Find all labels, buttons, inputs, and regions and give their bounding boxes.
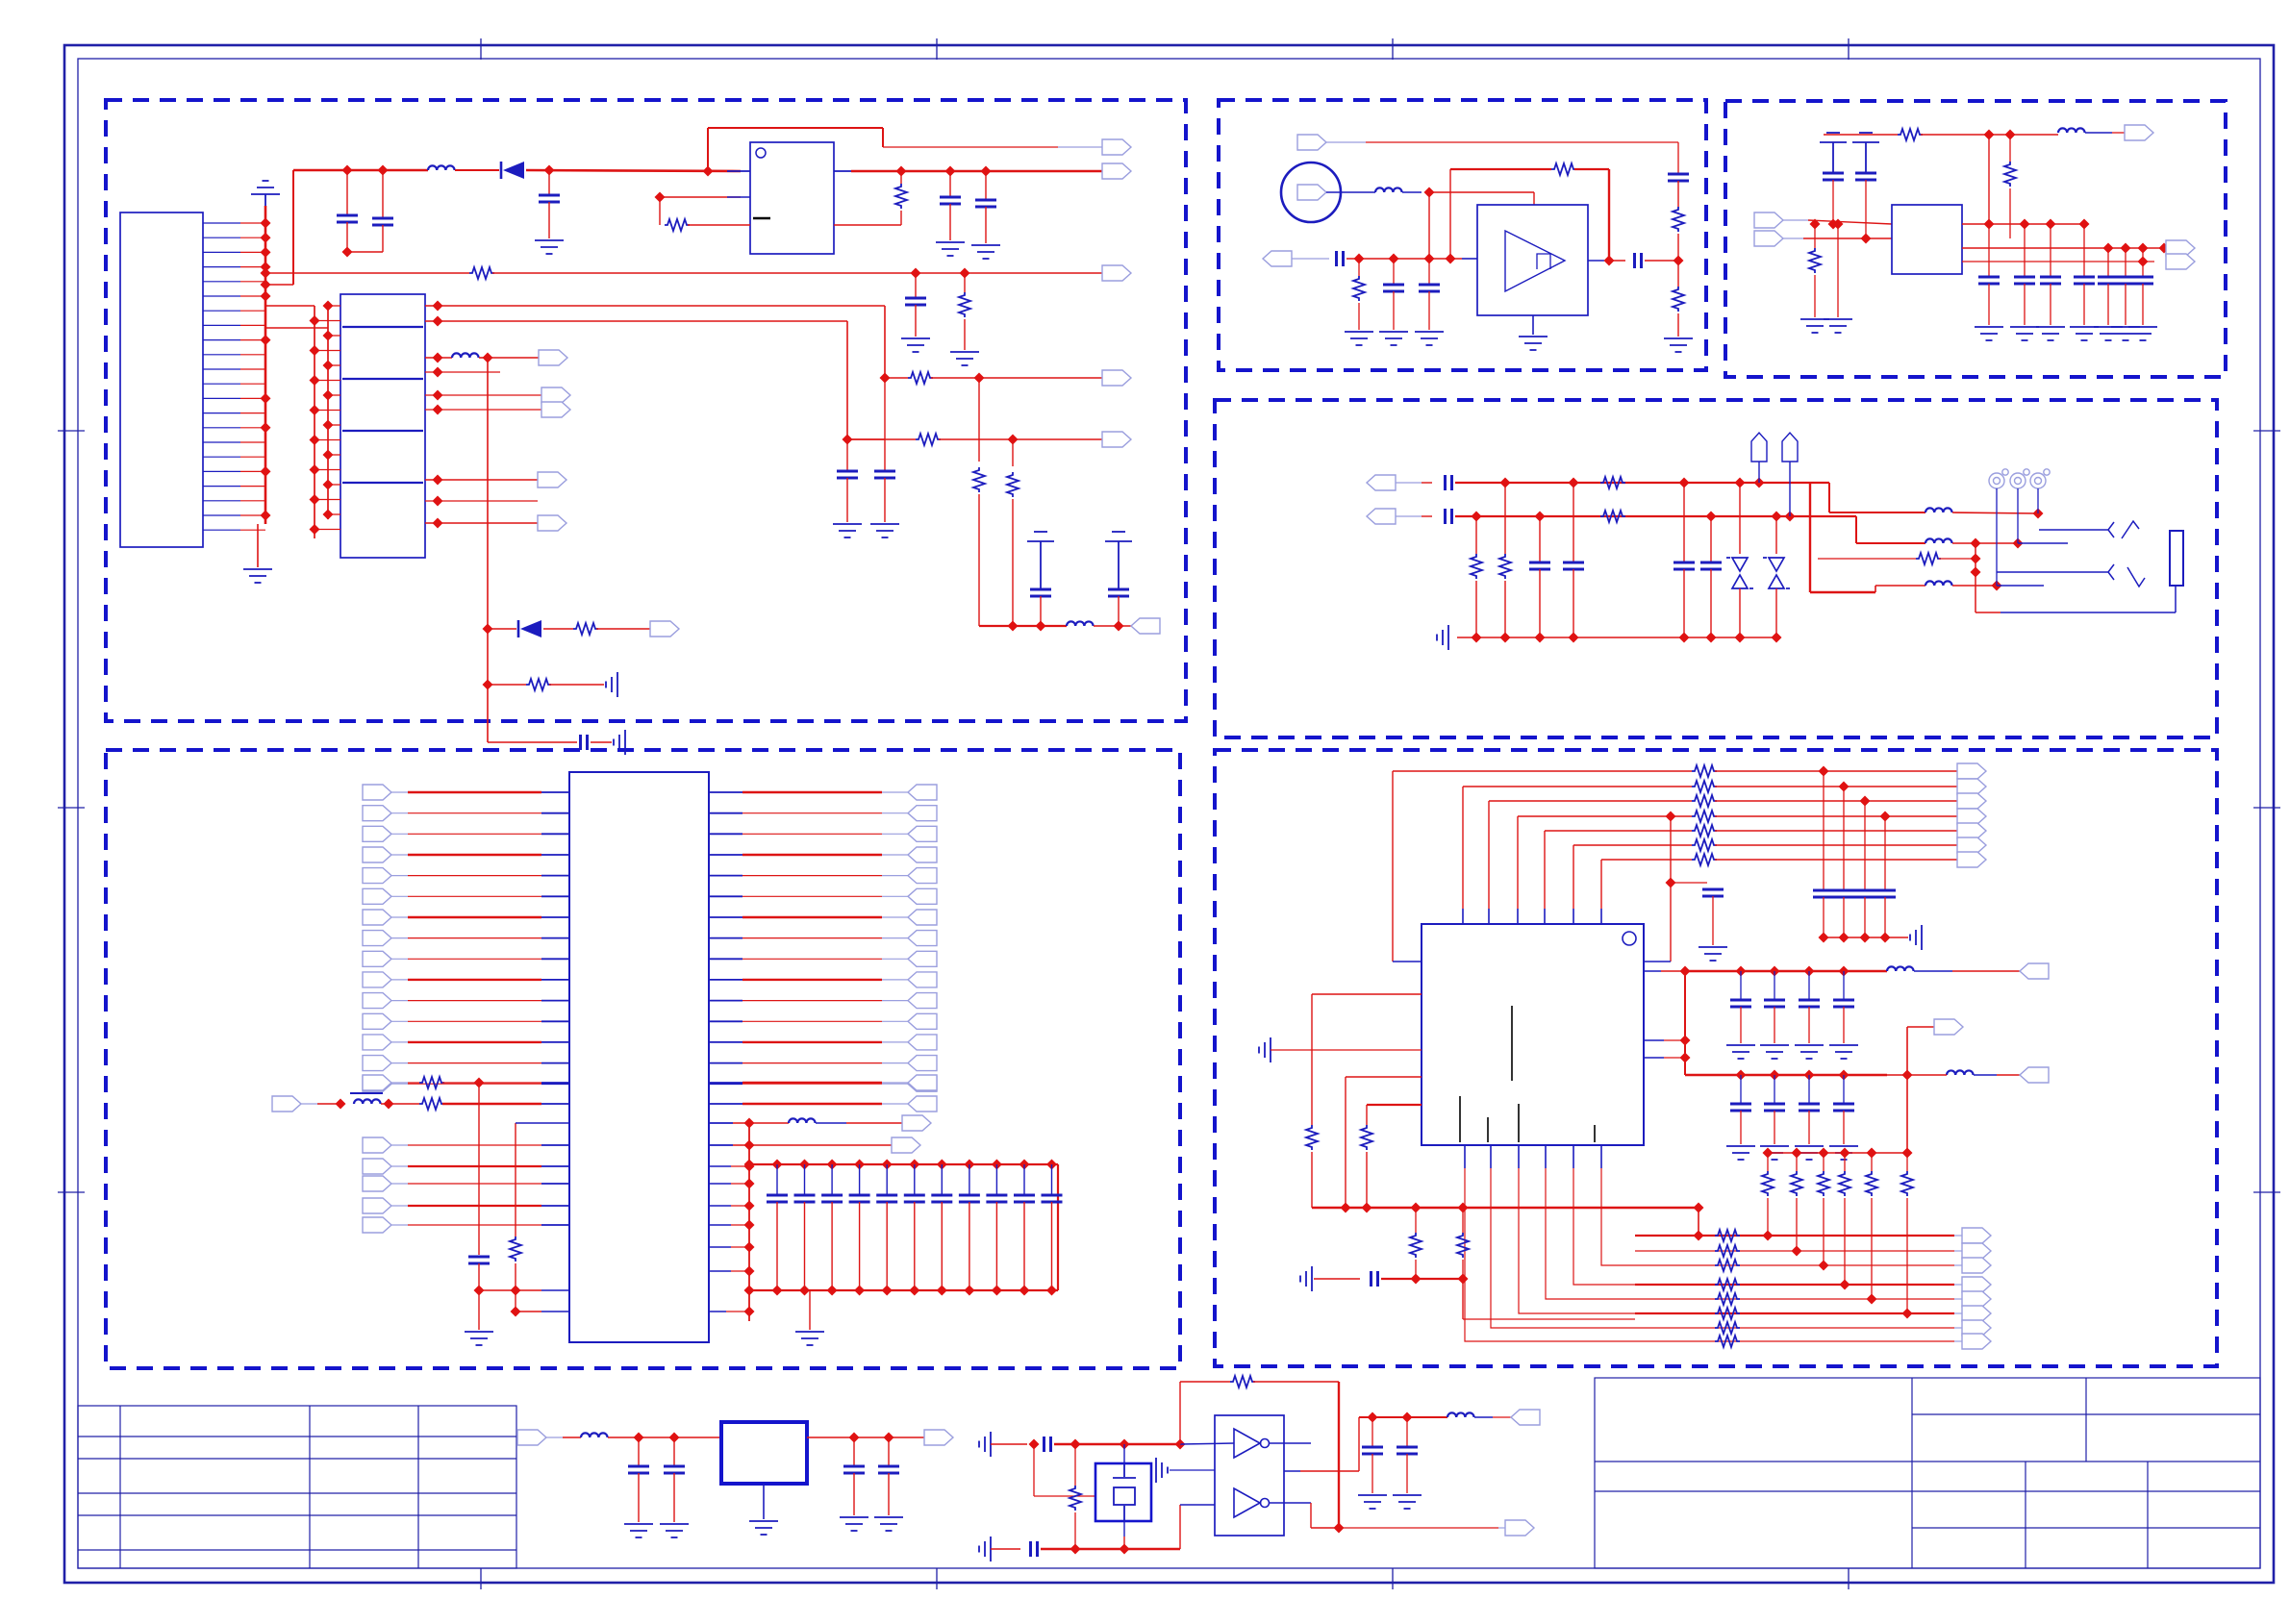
section box audio jack [1215, 400, 2217, 737]
junction [1819, 1148, 1829, 1159]
jack contact ring [2010, 469, 2029, 488]
wire connector pin [203, 251, 240, 253]
junction [744, 1160, 755, 1170]
junction [1984, 219, 1995, 230]
wire [1253, 1381, 1339, 1383]
wire connector pin [203, 514, 240, 516]
wire [1635, 1312, 1954, 1314]
wire [1952, 585, 1993, 587]
wire [1488, 909, 1490, 924]
net connector [908, 888, 937, 904]
wire [978, 378, 980, 462]
wire header left pin [328, 513, 340, 515]
polarized capacitor [1852, 133, 1879, 173]
wire [964, 319, 966, 350]
net connector [1957, 763, 1986, 779]
wire [1635, 1264, 1954, 1266]
wire header left pin [315, 320, 340, 322]
net connector [908, 1035, 937, 1050]
wire [1767, 1153, 1769, 1171]
net connector [908, 1076, 937, 1091]
wire [1359, 1416, 1447, 1418]
wire [846, 1122, 902, 1124]
wire [1808, 1007, 1810, 1043]
wire [2175, 586, 2177, 612]
junction [1754, 478, 1765, 488]
net connector EN [1102, 139, 1131, 155]
resistor [1692, 795, 1717, 807]
wire header left pin [315, 350, 340, 352]
wire [1428, 291, 1430, 330]
wire row [1962, 261, 2154, 262]
ground GB5 [1519, 337, 1548, 350]
wire [2142, 284, 2144, 325]
hysteresis mark [1537, 254, 1550, 269]
wire [673, 1437, 675, 1466]
wire [709, 1183, 731, 1185]
junction [1839, 1070, 1850, 1081]
net connector [908, 806, 937, 821]
section box top-right filter [1725, 101, 2226, 377]
wire [709, 916, 742, 918]
wire [541, 1083, 569, 1085]
junction [1500, 478, 1511, 488]
junction [1424, 254, 1435, 264]
wire [1823, 1198, 1824, 1265]
wire [541, 1311, 569, 1312]
wire [425, 371, 500, 373]
wire [1715, 800, 1957, 802]
capacitor [1833, 1104, 1854, 1111]
wire [1644, 1039, 1664, 1041]
capacitor [2074, 277, 2095, 284]
junction [323, 331, 334, 341]
wire [425, 500, 538, 502]
wire [709, 1083, 742, 1085]
wire [742, 895, 882, 897]
wire stub [1396, 482, 1422, 484]
wire riser [1488, 801, 1490, 909]
wire [1539, 554, 1541, 562]
wire [2083, 284, 2085, 325]
capacitor [1978, 277, 2000, 284]
jack sleeve [2170, 531, 2183, 586]
wire [1300, 1470, 1339, 1472]
resistor R10 [526, 679, 551, 690]
wire [995, 1202, 997, 1290]
wire [1939, 558, 1975, 560]
junction [882, 1160, 893, 1170]
inductor LE1 with shield bar [350, 1092, 383, 1094]
wire [408, 1144, 541, 1146]
inductor [1447, 1412, 1474, 1417]
net connector A426 [541, 402, 570, 417]
wire [488, 628, 516, 630]
wire [831, 1202, 833, 1290]
wire [408, 875, 541, 877]
wire out stub [834, 170, 851, 172]
junction [843, 435, 853, 445]
wire [1462, 1279, 1464, 1319]
wire [991, 1548, 1020, 1550]
wire header left pin [328, 335, 340, 337]
wire [1715, 844, 1957, 846]
junction [1819, 933, 1829, 943]
wire [479, 357, 488, 359]
net connector [1962, 1228, 1991, 1243]
wire [978, 494, 980, 626]
wire [1545, 830, 1692, 832]
net connector mic pin [1297, 185, 1326, 200]
wire [515, 1263, 516, 1312]
wire [1123, 1444, 1125, 1463]
resistor [1692, 811, 1717, 822]
wire [941, 1164, 943, 1195]
wire [1463, 786, 1692, 787]
wire [317, 1103, 342, 1105]
capacitor [1813, 890, 1834, 897]
wire [749, 1122, 789, 1124]
wire [1635, 1284, 1954, 1286]
wire [455, 169, 499, 171]
capacitor CB3 [1383, 285, 1404, 291]
wire [1829, 512, 1925, 513]
wire pin to bus [240, 266, 265, 268]
wire drop [478, 1083, 480, 1255]
wire connector pin [203, 456, 240, 458]
border tick left [58, 430, 85, 432]
resistor R9 [573, 623, 598, 635]
inverter U7 [1215, 1415, 1284, 1536]
capacitor [1730, 1104, 1751, 1111]
wire [541, 1289, 569, 1291]
wire [1715, 815, 1957, 817]
ground GD1 sideways [1437, 625, 1448, 650]
ground G2 below connector [243, 569, 272, 583]
inductor [1887, 966, 1914, 971]
main IC U4 [569, 772, 709, 1342]
wire stub [391, 937, 408, 939]
wire [1284, 1470, 1300, 1472]
wire [1393, 259, 1395, 285]
wire [1464, 1145, 1466, 1168]
crystal symbol [1113, 1463, 1136, 1521]
wire [1677, 142, 1679, 174]
ground G10 sideways [606, 672, 617, 697]
ground GC1 [1800, 319, 1829, 333]
pin name marks U5 [1460, 1006, 1595, 1142]
ground [1795, 1045, 1824, 1059]
wire [408, 791, 541, 793]
wire [541, 833, 569, 835]
wire [1346, 1076, 1422, 1078]
wire [1664, 1057, 1685, 1059]
wire header left pin [315, 380, 340, 382]
junction [1175, 1439, 1186, 1450]
ground [2070, 327, 2099, 340]
wire [1844, 1198, 1846, 1285]
wire [549, 684, 604, 686]
net connector G-out [924, 1430, 953, 1445]
junction [2005, 130, 2016, 140]
wire bus to header [265, 327, 328, 329]
jack contact ring [2030, 469, 2050, 488]
wire cap return [347, 251, 383, 253]
wire [1074, 1444, 1076, 1486]
junction [1680, 1036, 1691, 1046]
wire sense rail to connector [492, 272, 1102, 274]
wire [1677, 261, 1679, 287]
wire [1677, 313, 1679, 337]
junction [960, 268, 970, 279]
wire connector pin [203, 383, 240, 385]
junction [1804, 966, 1815, 977]
wire [915, 273, 917, 298]
wire [995, 1164, 997, 1195]
junction [1770, 1070, 1780, 1081]
net connector D-up2 [1782, 433, 1798, 462]
wire stub [391, 1000, 408, 1002]
junction [1735, 633, 1746, 643]
capacitor [1799, 1104, 1820, 1111]
wire [541, 937, 569, 939]
wire pin to bus [240, 441, 265, 443]
wire [2024, 284, 2026, 325]
net connector D-in2 [1367, 509, 1396, 524]
net connector VOUT [1102, 163, 1131, 179]
net connector [1962, 1258, 1991, 1273]
resistor RB1 [1673, 207, 1684, 232]
resistor [1715, 1293, 1740, 1305]
wire [1609, 260, 1625, 262]
wire [1573, 1145, 1574, 1168]
wire connector pin [203, 486, 240, 487]
wire [1865, 180, 1867, 238]
capacitor [1854, 890, 1875, 897]
net connector A393 [1102, 370, 1131, 386]
capacitor [1042, 1195, 1063, 1202]
resistor [1692, 765, 1717, 777]
wire [516, 1122, 569, 1124]
wire [1311, 1527, 1339, 1529]
wire [1504, 581, 1506, 637]
wire [742, 916, 882, 918]
capacitor [876, 1195, 897, 1202]
inductor [452, 353, 479, 358]
wire [1462, 909, 1464, 924]
junction [896, 166, 907, 177]
wire [1871, 1198, 1873, 1299]
wire [425, 479, 538, 481]
wire [541, 875, 569, 877]
ground [1829, 1146, 1858, 1160]
wire [1310, 1503, 1312, 1528]
wire [1710, 554, 1712, 562]
ground [1760, 1045, 1789, 1059]
wire stub [391, 1020, 408, 1022]
wire pin to bus [240, 412, 265, 414]
junction [2033, 509, 2044, 519]
wire [709, 1020, 742, 1022]
junction [261, 422, 271, 433]
wire [1808, 220, 1892, 224]
junction [1070, 1544, 1081, 1555]
wire [1715, 830, 1957, 832]
wire power bus2 [1685, 1074, 1887, 1076]
wire [1345, 1077, 1346, 1208]
junction [744, 1162, 755, 1172]
wire stub [391, 791, 408, 793]
wire [1775, 516, 1777, 554]
wire [884, 378, 886, 439]
ground G1 above bus [251, 181, 280, 206]
wire cap bus right [1057, 1164, 1059, 1290]
wire branch to bus [265, 284, 293, 286]
net connector [1957, 823, 1986, 838]
wire [541, 1224, 569, 1226]
wire header left pin [315, 529, 340, 531]
net connector [363, 931, 391, 946]
net connector H-out1 [1511, 1410, 1540, 1425]
ground GG1 [749, 1521, 778, 1535]
op-amp U2 [1477, 205, 1588, 315]
wire stub [1783, 219, 1808, 221]
resistor RD3 [1916, 553, 1941, 564]
resistor RB2 [1673, 287, 1684, 312]
wire drop [515, 1123, 516, 1237]
junction [310, 375, 320, 386]
junction [483, 353, 493, 363]
net connector [908, 972, 937, 987]
junction [310, 435, 320, 445]
wire adj pin [660, 196, 741, 198]
net connector [363, 910, 391, 925]
op-amp triangle [1505, 231, 1565, 291]
wire [763, 1484, 765, 1519]
junction [744, 1201, 755, 1212]
resistor RF2 [1361, 1125, 1372, 1150]
wire [709, 812, 742, 814]
junction [744, 1286, 755, 1296]
junction [880, 373, 891, 384]
resistor R6 [916, 434, 941, 445]
junction [261, 466, 271, 477]
junction [1971, 567, 1981, 578]
wire [1393, 961, 1422, 962]
wire riser [1392, 771, 1394, 962]
wire [884, 439, 886, 471]
wire [563, 1437, 581, 1438]
regulator U1 [750, 142, 834, 254]
wire bend [1465, 1168, 1635, 1341]
junction [882, 1286, 893, 1296]
filter IC U3 [1892, 205, 1962, 274]
wire [1123, 1537, 1125, 1549]
inductor [1925, 538, 1952, 543]
junction [799, 1160, 810, 1170]
wire [442, 1103, 541, 1105]
wire [1644, 970, 1661, 972]
junction [1679, 633, 1690, 643]
wire [541, 1103, 569, 1105]
junction [323, 301, 334, 312]
wire [1422, 515, 1432, 517]
wire pin to bus [240, 368, 265, 370]
wire [742, 854, 882, 856]
wire inv1 out [1270, 1442, 1311, 1444]
wire [1887, 1074, 1947, 1076]
wire [1573, 909, 1574, 924]
wire [733, 1144, 749, 1146]
capacitor [1030, 589, 1051, 596]
junction [669, 1433, 680, 1443]
resistor [1901, 1171, 1913, 1196]
wire [731, 1270, 749, 1272]
junction [2103, 243, 2114, 254]
junction [992, 1286, 1002, 1296]
ground G3 [535, 240, 564, 254]
wire [709, 1224, 731, 1226]
wire [1774, 1075, 1775, 1104]
junction [433, 475, 443, 486]
wire [888, 1437, 890, 1466]
wire [1997, 1074, 2020, 1076]
wire [742, 1083, 882, 1085]
wire [1843, 1111, 1845, 1144]
wire feedback riser [707, 128, 709, 171]
wire [1118, 596, 1120, 626]
wire [541, 958, 569, 960]
wire [541, 1000, 569, 1002]
wire [1588, 260, 1604, 262]
junction [911, 268, 921, 279]
capacitor C3 [539, 195, 560, 202]
inductor [1925, 508, 1952, 512]
junction [261, 233, 271, 243]
inductor [1925, 581, 1952, 586]
capacitor C1 [337, 215, 358, 222]
wire [884, 478, 886, 522]
microphone MK1 [1281, 162, 1341, 222]
wire [1774, 1007, 1775, 1043]
wire riser [846, 321, 848, 439]
junction [1833, 219, 1844, 230]
wire [1823, 1153, 1824, 1171]
wire [1518, 815, 1692, 817]
junction [2121, 243, 2131, 254]
wire [941, 1202, 943, 1290]
wire contact stem [2037, 488, 2039, 513]
junction [1424, 187, 1435, 198]
wire [425, 409, 541, 411]
net connector [1962, 1243, 1991, 1259]
pin-1 mark U5 [1623, 932, 1636, 945]
wire [1843, 897, 1845, 937]
wire [731, 1165, 749, 1167]
TVS diode [1726, 558, 1753, 588]
wire connector pin [203, 529, 240, 531]
wire pin to bus [240, 324, 265, 326]
wire [731, 1224, 749, 1226]
wire right bus [748, 1123, 750, 1321]
capacitor [1764, 1000, 1785, 1007]
resistor RE2 [419, 1098, 444, 1110]
wire [1635, 1340, 1954, 1342]
wire [733, 1122, 749, 1124]
wire [1988, 224, 1990, 277]
wire [1644, 1057, 1664, 1059]
wire [1358, 303, 1360, 330]
